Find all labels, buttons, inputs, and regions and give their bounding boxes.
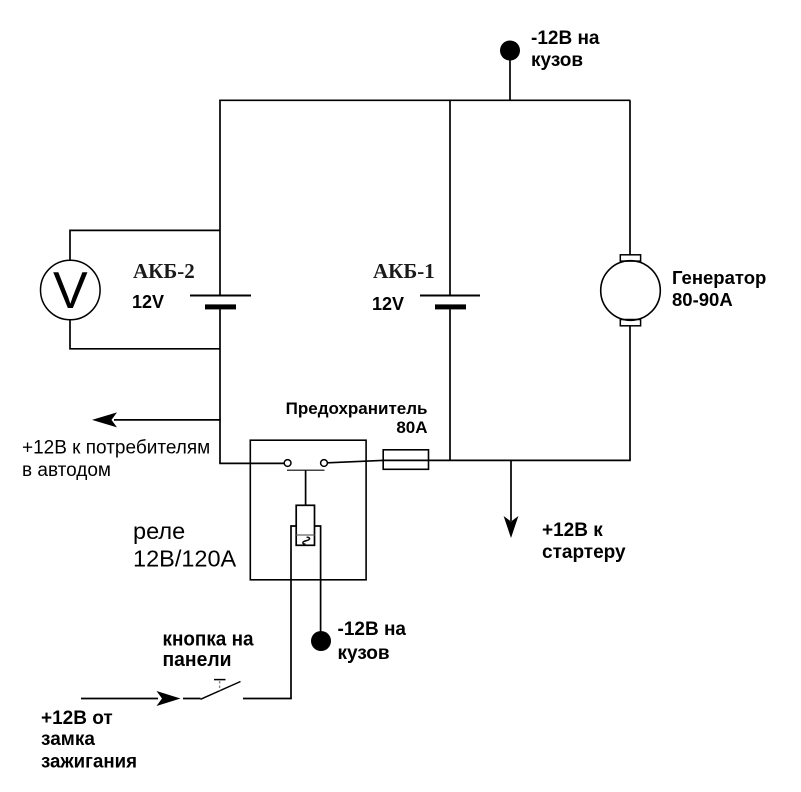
- wire relay input: [219, 462, 284, 464]
- svg-text:Предохранитель: Предохранитель: [286, 399, 428, 418]
- node bottom dot -12V body: [311, 631, 331, 651]
- svg-text:кузов: кузов: [531, 50, 583, 71]
- switch actuator stem: [219, 681, 221, 691]
- svg-text:стартеру: стартеру: [542, 542, 626, 563]
- wire starter drop: [510, 460, 512, 521]
- voltmeter V: [41, 260, 101, 320]
- svg-text:-12В на: -12В на: [338, 619, 407, 640]
- svg-text:зажигания: зажигания: [41, 752, 137, 773]
- battery AKB-2 symbol: [190, 296, 251, 310]
- svg-text:+12В от: +12В от: [41, 708, 113, 729]
- wire coil right lead down: [320, 580, 322, 632]
- fuse F1: [383, 450, 428, 470]
- wire left vertical lower: [219, 309, 221, 463]
- wire bottom bus relay-to-generator: [328, 460, 631, 462]
- relay contact pin right: [321, 460, 328, 467]
- wire left vertical upper (AKB-2 branch): [219, 100, 221, 295]
- generator G1: [601, 255, 661, 326]
- svg-text:замка: замка: [41, 729, 95, 750]
- svg-text:+12В к: +12В к: [542, 520, 603, 541]
- battery AKB-1 symbol: [420, 296, 480, 310]
- svg-text:12V: 12V: [372, 294, 404, 314]
- relay yoke bracket: [291, 526, 296, 580]
- switch blade S1: [201, 682, 241, 700]
- wire body-ground stub (top): [509, 60, 511, 101]
- relay contact pin left: [284, 460, 291, 467]
- wire top bus: [219, 99, 630, 101]
- svg-text:кузов: кузов: [338, 643, 390, 664]
- svg-text:12В/120А: 12В/120А: [133, 546, 237, 572]
- wire consumers feed: [114, 419, 221, 421]
- wire middle vertical upper (AKB-1 branch): [449, 100, 451, 295]
- svg-text:панели: панели: [163, 648, 232, 671]
- relay coil: [296, 505, 314, 545]
- switch actuator cap: [214, 679, 226, 681]
- wire right vertical lower: [629, 326, 631, 461]
- coil squiggle: [303, 537, 310, 544]
- wire middle vertical lower: [449, 309, 451, 460]
- svg-text:80-90А: 80-90А: [672, 289, 733, 310]
- relay armature bar: [287, 469, 325, 471]
- wire arrow to switch: [183, 698, 201, 700]
- wire switch to relay coil: [243, 698, 292, 700]
- svg-text:реле: реле: [133, 518, 185, 544]
- relay K1 box: [250, 440, 366, 580]
- wire coil left lead down: [290, 580, 292, 699]
- svg-text:12V: 12V: [132, 292, 164, 312]
- svg-text:80А: 80А: [396, 418, 427, 437]
- svg-text:АКБ-1: АКБ-1: [373, 259, 435, 283]
- svg-text:-12В на: -12В на: [531, 28, 600, 49]
- wire voltmeter loop top: [70, 230, 220, 260]
- wire ignition feed: [81, 698, 158, 700]
- arrow consumers (left): [92, 412, 117, 427]
- svg-text:в автодом: в автодом: [22, 460, 111, 481]
- svg-text:АКБ-2: АКБ-2: [133, 259, 195, 283]
- wire voltmeter loop bottom: [70, 320, 220, 349]
- arrow ignition feed: [157, 691, 181, 706]
- svg-text:Генератор: Генератор: [672, 267, 766, 288]
- arrow starter: [504, 516, 519, 538]
- wire right vertical upper (generator branch): [629, 100, 631, 255]
- svg-text:V: V: [53, 262, 88, 320]
- wire armature to coil: [305, 470, 307, 505]
- svg-text:+12В к потребителям: +12В к потребителям: [22, 438, 210, 459]
- node top dot -12V body: [500, 41, 520, 61]
